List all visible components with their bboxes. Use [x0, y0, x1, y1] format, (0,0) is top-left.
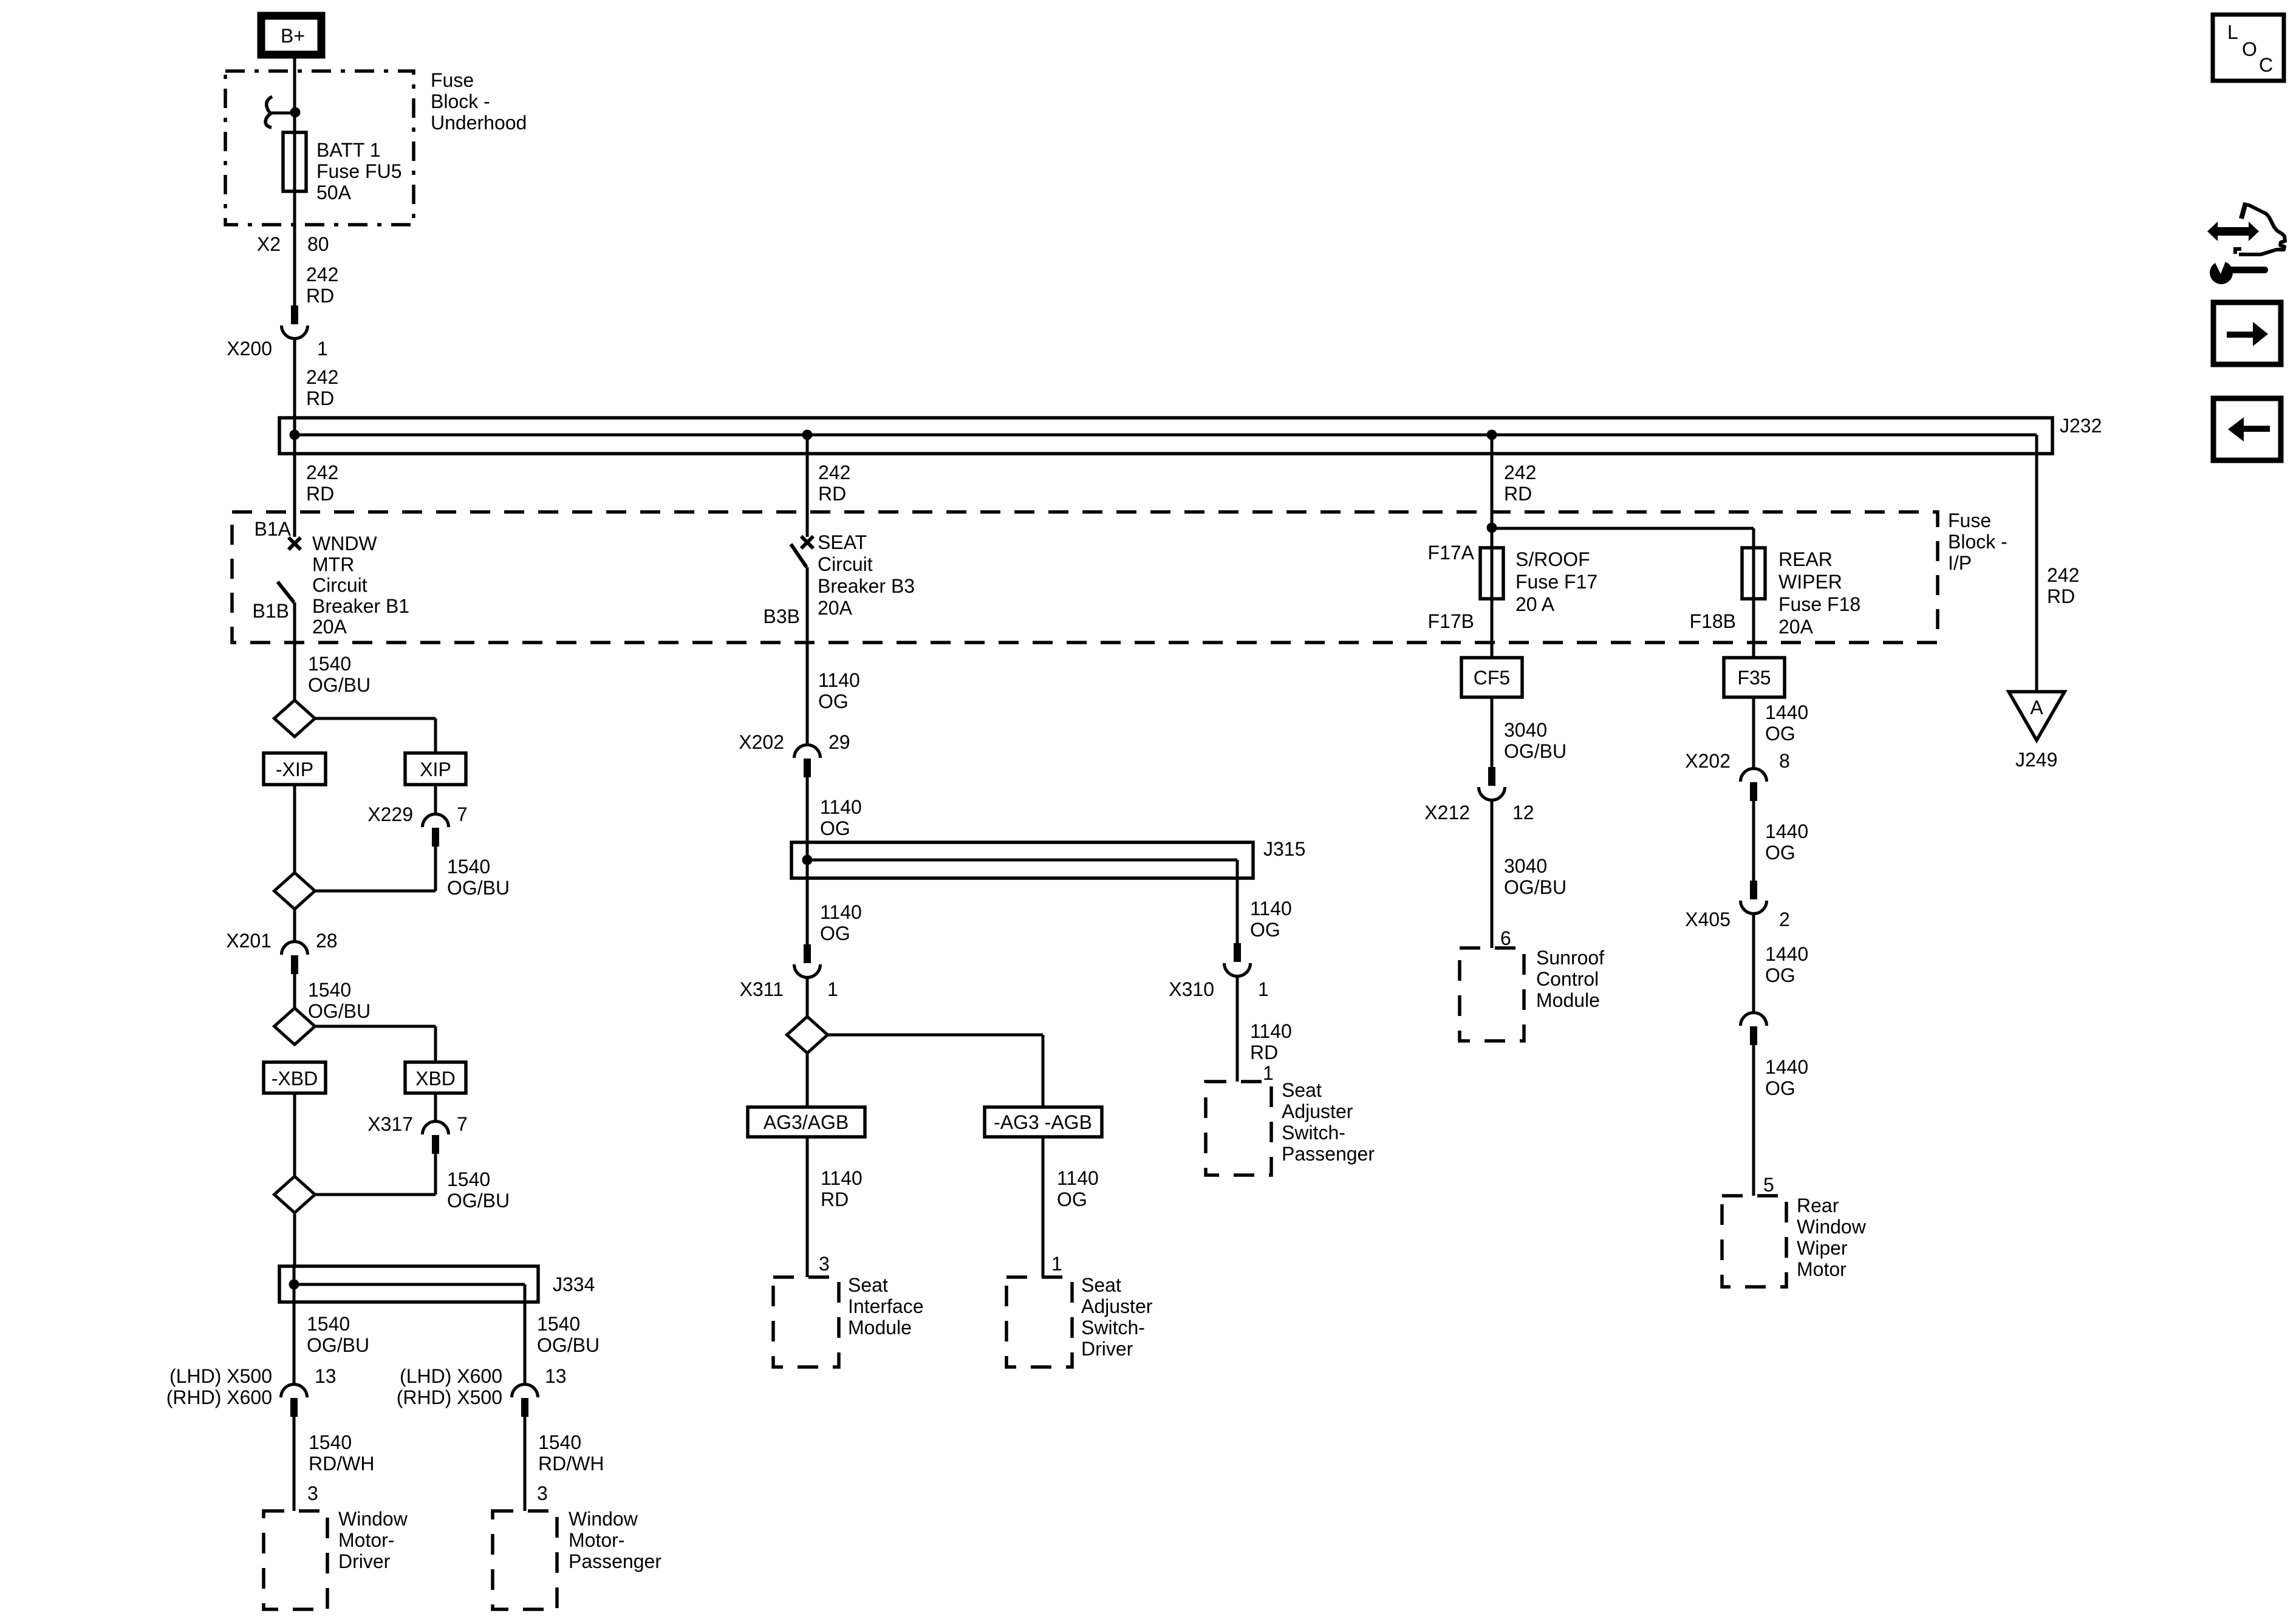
wire label 3040 OG/BU (below X212) — [1504, 855, 1567, 898]
seat adjuster switch driver dashed box — [1006, 1277, 1072, 1367]
wire X212 to sunroof module — [1491, 800, 1494, 948]
svg-text:OG: OG — [1765, 1077, 1795, 1099]
connector (LHD) X500 (RHD) X600 pin 13 — [166, 1365, 337, 1417]
svg-text:20 A: 20 A — [1515, 593, 1555, 615]
svg-text:1440: 1440 — [1765, 701, 1808, 723]
svg-text:Underhood: Underhood — [431, 112, 527, 134]
svg-text:Motor-: Motor- — [569, 1529, 624, 1551]
svg-text:B+: B+ — [281, 25, 305, 47]
svg-text:7: 7 — [457, 1113, 468, 1135]
wire label 1140 RD (passenger) — [1250, 1020, 1292, 1063]
wire J334 through to left connector — [293, 1266, 296, 1385]
svg-text:242: 242 — [818, 462, 850, 483]
svg-text:13: 13 — [315, 1365, 337, 1387]
svg-text:J232: J232 — [2060, 415, 2102, 437]
svg-text:Motor-: Motor- — [338, 1529, 394, 1551]
junction dot J315 — [802, 855, 813, 865]
svg-text:OG/BU: OG/BU — [307, 1334, 369, 1356]
svg-text:Fuse F18: Fuse F18 — [1778, 593, 1860, 615]
seat adjuster switch passenger dashed box — [1206, 1082, 1271, 1175]
svg-text:OG: OG — [820, 922, 850, 944]
svg-text:3040: 3040 — [1504, 719, 1547, 741]
svg-text:1140: 1140 — [820, 901, 862, 923]
svg-text:1140: 1140 — [818, 669, 860, 691]
svg-text:242: 242 — [2047, 564, 2079, 586]
svg-text:Window: Window — [1797, 1216, 1867, 1238]
window motor passenger dashed box — [493, 1511, 557, 1609]
svg-text:C: C — [2259, 54, 2273, 76]
svg-text:X310: X310 — [1169, 978, 1214, 1000]
forward arrow box — [2213, 302, 2281, 364]
wire label 1540 OG/BU (below X201) — [308, 979, 371, 1022]
power terminal B+ — [261, 16, 321, 55]
splice diamond 4 — [275, 1176, 315, 1213]
splice bus J232 — [279, 415, 2102, 454]
svg-text:I/P: I/P — [1948, 552, 1972, 574]
svg-text:1540: 1540 — [538, 1431, 581, 1453]
svg-text:7: 7 — [457, 803, 468, 825]
svg-text:Circuit: Circuit — [818, 553, 873, 575]
svg-text:Driver: Driver — [338, 1550, 391, 1572]
svg-text:Switch-: Switch- — [1081, 1317, 1145, 1338]
wire B3 to X202 — [806, 567, 809, 746]
wire label 1540 OG/BU (J334 left) — [307, 1313, 369, 1356]
svg-text:(RHD) X600: (RHD) X600 — [166, 1386, 272, 1408]
svg-text:RD: RD — [1504, 483, 1532, 505]
svg-text:XIP: XIP — [420, 759, 451, 780]
svg-text:-XBD: -XBD — [272, 1068, 318, 1089]
wire label 242 RD (to B3) — [818, 462, 850, 505]
fuse F17 S/ROOF — [1480, 548, 1503, 599]
circuit breaker B1 blade — [253, 582, 294, 622]
seat interface module label — [848, 1274, 924, 1338]
wire label 242 RD (far right) — [2047, 564, 2079, 607]
svg-text:Motor: Motor — [1797, 1258, 1847, 1280]
circuit breaker B1 label — [312, 533, 409, 638]
wire diamond5 to AG3/AGB — [806, 1053, 809, 1107]
svg-text:RD/WH: RD/WH — [309, 1453, 374, 1475]
svg-text:1540: 1540 — [308, 979, 351, 1001]
terminal box XIP — [405, 753, 466, 785]
svg-text:RD: RD — [1250, 1042, 1278, 1063]
svg-text:OG/BU: OG/BU — [1504, 740, 1567, 762]
fuse F17 label — [1515, 548, 1597, 615]
svg-text:50A: 50A — [316, 182, 352, 203]
svg-text:OG/BU: OG/BU — [308, 674, 371, 696]
svg-text:-XIP: -XIP — [276, 759, 313, 780]
junction dot fuse feed — [290, 107, 301, 118]
svg-text:RD: RD — [306, 483, 334, 505]
svg-text:J315: J315 — [1263, 838, 1305, 860]
wire diamond4 to bus J334 — [293, 1213, 296, 1266]
svg-text:20A: 20A — [312, 616, 347, 638]
svg-text:X2: X2 — [257, 233, 281, 255]
svg-text:242: 242 — [306, 366, 338, 388]
wire diamond3 to XBD — [315, 1026, 436, 1062]
svg-text:3: 3 — [307, 1482, 318, 1504]
wire AG3/AGB to seat interface module — [806, 1137, 809, 1277]
svg-text:8: 8 — [1779, 750, 1790, 772]
svg-text:WNDW: WNDW — [312, 533, 377, 554]
wire diamond5 to -AG3 -AGB — [828, 1035, 1044, 1107]
seat adjuster switch driver label — [1081, 1274, 1153, 1360]
terminal box XBD — [405, 1062, 466, 1093]
svg-text:Adjuster: Adjuster — [1282, 1100, 1353, 1122]
wire J232 to F17A — [1491, 435, 1494, 528]
svg-text:WIPER: WIPER — [1778, 571, 1842, 593]
circuit breaker B3 blade B3B — [764, 544, 807, 627]
wire CF5 to X212 — [1491, 697, 1494, 767]
LOC legend box — [2213, 15, 2284, 81]
wire to window motor passenger — [524, 1417, 527, 1511]
svg-text:1140: 1140 — [820, 796, 862, 818]
svg-text:20A: 20A — [1778, 616, 1814, 638]
wire label 1540 OG/BU (XBD branch) — [447, 1168, 510, 1212]
junction dot J232 middle — [802, 430, 813, 440]
wire label 3040 OG/BU (above X212) — [1504, 719, 1567, 762]
terminal box CF5 — [1461, 658, 1522, 697]
svg-text:28: 28 — [316, 930, 338, 952]
svg-text:F18B: F18B — [1690, 610, 1736, 632]
svg-text:X212: X212 — [1424, 802, 1470, 823]
connector X202 pin 29 — [739, 731, 850, 777]
svg-text:RD: RD — [2047, 585, 2075, 607]
window motor driver label — [338, 1508, 408, 1572]
terminal box -AG3 -AGB — [985, 1107, 1102, 1137]
svg-text:Circuit: Circuit — [312, 574, 367, 596]
svg-text:1: 1 — [827, 978, 838, 1000]
fuse FU5 BATT 1 50A — [283, 132, 306, 191]
sunroof control module dashed box — [1460, 948, 1524, 1041]
svg-text:S/ROOF: S/ROOF — [1515, 548, 1590, 570]
svg-text:1140: 1140 — [821, 1167, 863, 1189]
svg-text:OG: OG — [1057, 1188, 1087, 1210]
svg-text:B1B: B1B — [253, 600, 289, 622]
svg-text:Fuse F17: Fuse F17 — [1515, 571, 1597, 593]
wire label 1440 OG (to wiper motor) — [1765, 1056, 1808, 1099]
svg-text:Seat: Seat — [848, 1274, 888, 1296]
svg-text:Breaker B3: Breaker B3 — [818, 575, 915, 597]
svg-text:3: 3 — [537, 1482, 548, 1504]
svg-text:OG/BU: OG/BU — [1504, 876, 1567, 898]
svg-text:Switch-: Switch- — [1282, 1122, 1345, 1144]
svg-text:CF5: CF5 — [1474, 667, 1510, 689]
svg-text:F35: F35 — [1737, 667, 1771, 689]
wire through fuse F17 — [1491, 528, 1494, 658]
wire J334 right branch — [524, 1284, 527, 1385]
svg-text:1540: 1540 — [307, 1313, 350, 1335]
connector X201 pin 28 — [226, 909, 337, 974]
svg-text:A: A — [2030, 697, 2043, 718]
wire label 1140 OG (above J315) — [820, 796, 862, 839]
svg-text:RD: RD — [821, 1188, 849, 1210]
connector X405 pin 2 — [1685, 881, 1790, 930]
wire F17A to F18 branch — [1492, 527, 1754, 530]
wire X201 to splice diamond 3 — [293, 974, 296, 1009]
wire X317 to splice diamond 4 — [315, 1154, 436, 1195]
splice bus J315 — [791, 838, 1305, 878]
wire through fuse F18 — [1752, 528, 1755, 658]
circuit breaker B3 label — [818, 531, 915, 619]
wire to window motor driver — [293, 1417, 296, 1511]
svg-text:242: 242 — [306, 462, 338, 483]
terminal box AG3/AGB — [748, 1107, 865, 1137]
off-page triangle A J249 — [2009, 692, 2065, 771]
svg-text:Control: Control — [1536, 968, 1599, 990]
svg-text:1140: 1140 — [1250, 1020, 1292, 1042]
svg-text:AG3/AGB: AG3/AGB — [764, 1111, 849, 1133]
connector (LHD) X600 (RHD) X500 pin 13 — [397, 1365, 567, 1417]
svg-text:OG: OG — [1765, 842, 1795, 864]
svg-text:SEAT: SEAT — [818, 531, 867, 553]
wire X310 to passenger switch — [1236, 977, 1239, 1082]
svg-text:OG/BU: OG/BU — [308, 1000, 371, 1022]
svg-text:OG: OG — [1250, 919, 1280, 941]
wire X229 to splice diamond 2 — [315, 847, 436, 891]
svg-text:1: 1 — [317, 338, 328, 360]
connector X202 pin 8 — [1685, 750, 1790, 801]
wire -AG3 -AGB to seat adjuster switch driver — [1042, 1137, 1045, 1277]
svg-text:Wiper: Wiper — [1797, 1237, 1848, 1259]
wire J232 to breaker B1 — [293, 435, 296, 537]
svg-text:OG: OG — [818, 690, 849, 712]
fuse F18 REAR WIPER — [1742, 548, 1765, 599]
svg-text:Module: Module — [1536, 989, 1600, 1011]
svg-text:5: 5 — [1763, 1174, 1774, 1196]
svg-text:Block -: Block - — [1948, 531, 2007, 553]
double arrow icon — [2207, 222, 2259, 241]
rear window wiper motor dashed box — [1722, 1196, 1786, 1287]
svg-text:F17B: F17B — [1428, 610, 1474, 632]
wire label 1540 RD/WH (left) — [309, 1431, 374, 1475]
junction dot J232 right — [1487, 430, 1497, 440]
car front outline icon — [2235, 203, 2285, 254]
svg-text:RD: RD — [306, 387, 334, 409]
battery stud hook symbol — [265, 97, 295, 128]
back arrow box — [2213, 398, 2281, 460]
wire label 1540 OG/BU (J334 right) — [537, 1313, 600, 1356]
svg-text:1140: 1140 — [1057, 1167, 1099, 1189]
svg-text:OG: OG — [1765, 723, 1795, 745]
svg-text:OG/BU: OG/BU — [447, 877, 510, 899]
connector X311 pin 1 — [740, 944, 838, 1000]
svg-text:OG: OG — [820, 817, 850, 839]
wire label 242 RD (X2 to X200) — [306, 264, 338, 307]
junction dot J232 left — [290, 430, 300, 440]
svg-text:Fuse FU5: Fuse FU5 — [316, 160, 401, 182]
svg-text:1540: 1540 — [447, 1168, 490, 1190]
circuit breaker B1 contact B1A — [255, 518, 301, 550]
splice diamond 3 — [275, 1008, 315, 1045]
svg-text:Seat: Seat — [1081, 1274, 1121, 1296]
svg-text:12: 12 — [1512, 802, 1534, 823]
svg-text:13: 13 — [545, 1365, 567, 1387]
wire X202 to bus J315 — [806, 777, 809, 860]
svg-text:Window: Window — [338, 1508, 408, 1530]
wire label 1140 OG (below J315 left) — [820, 901, 862, 944]
wire label 1540 RD/WH (right) — [538, 1431, 604, 1475]
svg-text:Driver: Driver — [1081, 1338, 1133, 1360]
wire J232 to breaker B3 — [806, 435, 809, 537]
svg-text:L: L — [2227, 21, 2238, 43]
svg-text:1540: 1540 — [537, 1313, 580, 1335]
svg-text:242: 242 — [306, 264, 338, 285]
wire F35 to X202 pin 8 — [1752, 697, 1755, 769]
svg-text:1440: 1440 — [1765, 943, 1808, 965]
svg-text:RD/WH: RD/WH — [538, 1453, 604, 1475]
wire B1B to splice diamond 1 — [293, 602, 296, 700]
svg-text:3: 3 — [819, 1253, 830, 1275]
wire B+ to fuse FU5 — [293, 58, 296, 305]
wire diamond1 to XIP — [315, 718, 436, 753]
fuse block underhood label — [431, 69, 527, 134]
svg-text:Interface: Interface — [848, 1295, 924, 1317]
svg-text:J334: J334 — [553, 1273, 595, 1295]
svg-text:XBD: XBD — [415, 1068, 456, 1089]
svg-text:-AG3 -AGB: -AG3 -AGB — [994, 1111, 1092, 1133]
svg-text:Seat: Seat — [1282, 1079, 1322, 1101]
svg-text:X202: X202 — [739, 731, 784, 753]
svg-text:RD: RD — [818, 483, 846, 505]
svg-text:20A: 20A — [818, 597, 853, 619]
wire J232 to J249 — [2035, 435, 2038, 692]
svg-text:OG/BU: OG/BU — [537, 1334, 600, 1356]
window motor driver dashed box — [264, 1511, 327, 1609]
svg-text:1: 1 — [1258, 978, 1269, 1000]
svg-text:X200: X200 — [227, 338, 272, 360]
wire label 1540 OG/BU (below B1) — [308, 653, 371, 696]
svg-text:1540: 1540 — [308, 653, 351, 675]
svg-text:REAR: REAR — [1778, 548, 1833, 570]
wire X200 to bus J232 — [293, 339, 296, 435]
connector X212 pin 12 — [1424, 767, 1534, 823]
svg-text:Sunroof: Sunroof — [1536, 947, 1604, 969]
circuit breaker B3 contact — [801, 536, 813, 548]
terminal box -XBD — [264, 1062, 326, 1093]
fuse FU5 label — [316, 139, 401, 203]
svg-text:1440: 1440 — [1765, 820, 1808, 842]
svg-text:Adjuster: Adjuster — [1081, 1295, 1153, 1317]
splice diamond 2 — [275, 873, 315, 909]
junction dot J334 — [289, 1280, 299, 1290]
wire -XBD to diamond 4 — [293, 1093, 296, 1177]
fuse block I/P label — [1948, 510, 2007, 574]
svg-text:Rear: Rear — [1797, 1195, 1839, 1216]
rear window wiper motor label — [1797, 1195, 1867, 1280]
sunroof control module label — [1536, 947, 1604, 1011]
svg-text:X201: X201 — [226, 930, 272, 952]
connector X200 pin 1 — [227, 305, 328, 360]
seat interface module dashed box — [773, 1277, 839, 1367]
svg-text:X202: X202 — [1685, 750, 1731, 772]
svg-text:X229: X229 — [367, 803, 413, 825]
svg-text:1140: 1140 — [1250, 898, 1292, 919]
wire label 1140 OG (driver switch) — [1057, 1167, 1099, 1210]
svg-text:O: O — [2242, 38, 2257, 60]
fuse block I/P dashed box — [232, 512, 1938, 643]
svg-text:(LHD) X600: (LHD) X600 — [400, 1365, 502, 1387]
svg-text:1: 1 — [1051, 1253, 1062, 1275]
svg-text:242: 242 — [1504, 462, 1536, 483]
svg-text:1540: 1540 — [447, 856, 490, 878]
connector X229 pin 7 — [367, 785, 468, 847]
splice diamond 1 — [275, 700, 315, 737]
svg-text:1440: 1440 — [1765, 1056, 1808, 1078]
svg-text:1: 1 — [1263, 1062, 1274, 1084]
wire J315 to X311 — [806, 860, 809, 944]
svg-text:X405: X405 — [1685, 909, 1731, 930]
svg-text:80: 80 — [307, 233, 329, 255]
svg-text:BATT 1: BATT 1 — [316, 139, 381, 161]
fuse block underhood dashed box — [225, 71, 414, 225]
wire X202-8 to X405 — [1752, 801, 1755, 881]
terminal box -XIP — [264, 753, 326, 785]
svg-text:Passenger: Passenger — [569, 1550, 661, 1572]
connector X310 pin 1 — [1169, 943, 1269, 1000]
svg-text:3040: 3040 — [1504, 855, 1547, 877]
wire label 1440 OG (above X202-8) — [1765, 701, 1808, 745]
svg-text:X317: X317 — [367, 1113, 413, 1135]
svg-text:OG/BU: OG/BU — [447, 1190, 510, 1212]
seat adjuster switch passenger label — [1282, 1079, 1375, 1165]
wire to rear window wiper motor — [1752, 1045, 1755, 1196]
wire label 242 RD (to B1A) — [306, 462, 338, 505]
wire label 1140 OG (below B3) — [818, 669, 860, 712]
wire label 1140 RD — [821, 1167, 863, 1210]
wire -XIP to diamond 2 — [293, 785, 296, 873]
wire J315 right branch — [1236, 860, 1239, 943]
svg-text:(LHD) X500: (LHD) X500 — [169, 1365, 272, 1387]
svg-text:Window: Window — [569, 1508, 638, 1530]
splice diamond 5 — [787, 1017, 828, 1053]
svg-text:(RHD) X500: (RHD) X500 — [397, 1386, 502, 1408]
window motor passenger label — [569, 1508, 661, 1572]
svg-text:Passenger: Passenger — [1282, 1143, 1375, 1165]
fuse F18 label — [1778, 548, 1860, 638]
wire label 242 RD (X200 to J232) — [306, 366, 338, 409]
junction dot F17A — [1487, 523, 1497, 533]
svg-text:Block -: Block - — [431, 90, 490, 112]
svg-text:J249: J249 — [2015, 749, 2057, 771]
svg-text:Breaker B1: Breaker B1 — [312, 595, 409, 617]
svg-text:29: 29 — [829, 731, 850, 753]
svg-text:X311: X311 — [740, 978, 784, 1000]
svg-text:OG: OG — [1765, 964, 1795, 986]
svg-text:MTR: MTR — [312, 553, 354, 575]
wire label 1440 OG (below X202-8) — [1765, 820, 1808, 864]
wire label 242 RD (to F17A) — [1504, 462, 1536, 505]
connector X317 pin 7 — [367, 1093, 468, 1154]
svg-text:Module: Module — [848, 1317, 912, 1338]
wrench icon — [2210, 256, 2268, 284]
connector X2 pin 80 — [257, 233, 329, 255]
terminal box F35 — [1724, 658, 1785, 697]
svg-text:F17A: F17A — [1428, 542, 1475, 564]
svg-text:Fuse: Fuse — [431, 69, 474, 91]
svg-text:B3B: B3B — [764, 605, 800, 627]
wire label 1540 OG/BU (XIP branch) — [447, 856, 510, 899]
wire label 1440 OG (below X405) — [1765, 943, 1808, 986]
svg-text:1540: 1540 — [309, 1431, 352, 1453]
inline connector (unnamed) — [1741, 1012, 1767, 1045]
svg-text:B1A: B1A — [255, 518, 292, 540]
svg-text:Fuse: Fuse — [1948, 510, 1991, 531]
svg-text:RD: RD — [306, 285, 334, 307]
svg-text:6: 6 — [1500, 927, 1511, 949]
wire X405 to inline connector — [1752, 914, 1755, 1014]
wire label 1140 OG (J315 right) — [1250, 898, 1292, 941]
splice bus J334 — [279, 1266, 595, 1302]
